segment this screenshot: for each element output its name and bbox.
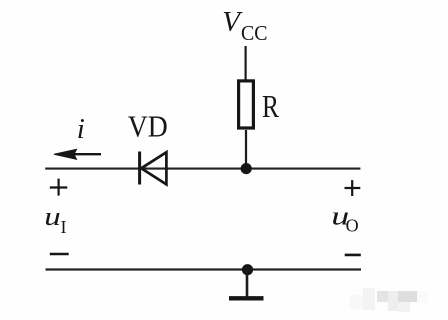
diode VD (cathode bar) <box>138 152 141 185</box>
label + (output polarity) <box>345 180 361 196</box>
svg-text:CC: CC <box>241 21 268 45</box>
resistor R (body) <box>239 81 254 128</box>
label minus (input polarity) <box>50 253 69 256</box>
current arrow i (pointing left) <box>54 149 101 159</box>
label minus (output polarity) <box>345 254 361 257</box>
node: junction dot on top rail <box>241 163 252 174</box>
wire: bottom node to ground <box>246 270 249 297</box>
wire: bottom rail (common) <box>46 268 362 270</box>
svg-text:u: u <box>44 202 61 231</box>
node: junction dot on bottom rail <box>242 264 253 275</box>
svg-text:VD: VD <box>128 109 168 144</box>
svg-text:i: i <box>77 113 85 145</box>
svg-text:O: O <box>346 216 359 236</box>
wire: resistor to top node <box>245 130 247 168</box>
wire: top rail (input node to output node) <box>45 168 360 170</box>
wire: Vcc down to resistor <box>245 46 247 80</box>
svg-text:I: I <box>61 217 67 237</box>
watermark remnant blocks bottom right <box>350 288 428 312</box>
svg-text:R: R <box>262 88 280 124</box>
label + (input polarity) <box>50 179 68 196</box>
diode VD (triangle, anode on right pointing left) <box>141 152 166 184</box>
ground <box>229 296 264 300</box>
